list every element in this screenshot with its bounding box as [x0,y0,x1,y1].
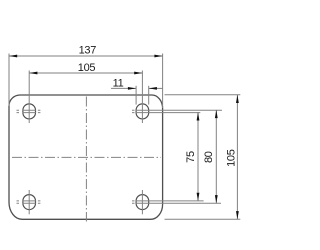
svg-text:137: 137 [79,45,97,57]
svg-text:75: 75 [185,151,197,163]
svg-text:80: 80 [203,151,215,163]
svg-text:11: 11 [113,77,124,89]
svg-text:105: 105 [78,62,96,74]
svg-text:105: 105 [225,149,237,167]
